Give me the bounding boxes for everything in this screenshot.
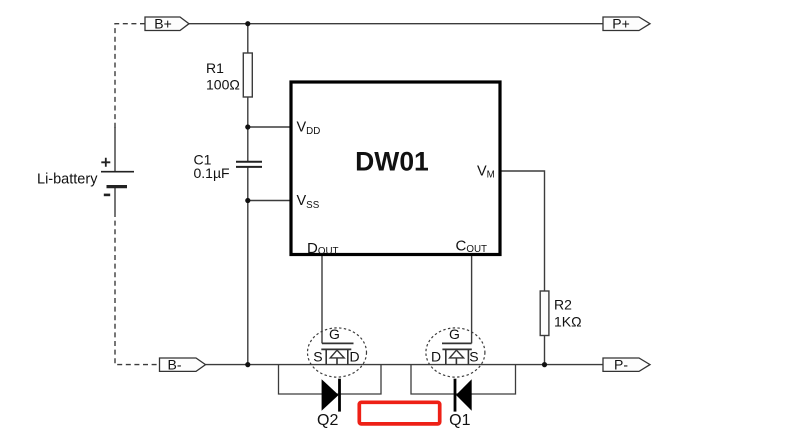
node junction VDD <box>245 124 250 129</box>
wire battery top lead <box>114 127 116 172</box>
wire battery bottom lead <box>114 187 116 212</box>
wire R2 bottom lead <box>544 336 546 365</box>
svg-text:Li-battery: Li-battery <box>37 171 98 187</box>
wire main vertical R1/C1 branch <box>247 24 249 53</box>
svg-text:1KΩ: 1KΩ <box>554 313 582 329</box>
terminal flag B- <box>160 356 206 372</box>
wire DOUT to Q2 gate <box>321 256 323 344</box>
svg-text:R2: R2 <box>554 296 572 312</box>
svg-text:P+: P+ <box>612 16 630 32</box>
svg-text:100Ω: 100Ω <box>206 76 240 92</box>
svg-text:Q1: Q1 <box>449 412 470 429</box>
svg-text:Q2: Q2 <box>317 412 338 429</box>
terminal flag P- <box>603 356 650 372</box>
resistor R1 <box>206 53 252 97</box>
transistor Q2 MOSFET <box>308 326 367 377</box>
capacitor C1 <box>194 152 263 181</box>
wire top rail B+ to P+ <box>189 23 603 25</box>
svg-text:S: S <box>469 349 478 365</box>
wire COUT to Q1 gate <box>471 256 473 344</box>
resistor R2 <box>540 291 581 336</box>
svg-text:D: D <box>350 349 360 365</box>
wire dashed left bottom <box>115 212 160 365</box>
svg-text:B+: B+ <box>154 16 172 32</box>
battery B1 Li-battery <box>37 158 134 195</box>
wire bottom rail B- to P- <box>206 364 604 366</box>
svg-text:S: S <box>313 349 322 365</box>
terminal flag B+ <box>145 16 189 32</box>
terminal flag P+ <box>603 16 650 32</box>
node junction top rail <box>245 21 250 26</box>
highlight red box <box>359 402 439 424</box>
node junction VSS <box>245 198 250 203</box>
node junction R2 bottom <box>542 362 547 367</box>
svg-text:G: G <box>329 326 340 342</box>
wire VDD pin <box>248 126 291 128</box>
transistor Q1 MOSFET <box>426 326 485 377</box>
svg-text:R1: R1 <box>206 60 224 76</box>
transistor Q1 body diode <box>411 365 516 429</box>
svg-text:G: G <box>449 326 460 342</box>
svg-text:0.1µF: 0.1µF <box>194 165 230 181</box>
IC U1 DW01 <box>291 82 500 257</box>
wire dashed left top <box>115 24 145 128</box>
svg-text:B-: B- <box>168 356 182 372</box>
wire VM pin <box>500 171 545 291</box>
svg-text:D: D <box>431 349 441 365</box>
transistor Q2 body diode <box>279 365 382 429</box>
wire VSS pin <box>248 200 291 202</box>
svg-text:DW01: DW01 <box>355 147 429 177</box>
svg-text:P-: P- <box>614 356 628 372</box>
node junction bottom rail left <box>245 362 250 367</box>
